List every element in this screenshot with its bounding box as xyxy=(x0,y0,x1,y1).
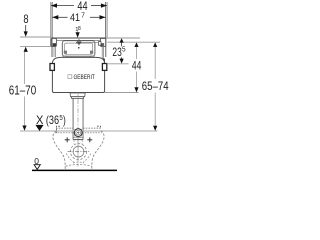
wall extension line right outer xyxy=(106,2,108,38)
flush pipe body white over band xyxy=(74,99,83,139)
fixation cross left xyxy=(65,137,70,142)
pipe center line xyxy=(77,94,79,161)
outlet dashed circle xyxy=(71,144,87,160)
extension line B tab bottom xyxy=(20,45,51,47)
label 1.8 above cistern xyxy=(75,26,81,33)
geberit logo square xyxy=(68,75,72,79)
svg-text:GEBERIT: GEBERIT xyxy=(74,74,96,81)
fixation cross right xyxy=(87,137,92,142)
dimension 44 top xyxy=(51,0,107,13)
dimension 8 down arrow xyxy=(25,25,27,32)
rim band left end xyxy=(56,126,60,133)
dimension 23.5 xyxy=(107,38,129,64)
svg-text:8: 8 xyxy=(23,13,28,26)
outlet solid circle xyxy=(73,146,84,157)
internal hose xyxy=(102,43,103,59)
svg-text:23: 23 xyxy=(112,45,122,59)
pan left side dashed xyxy=(53,131,65,170)
pipe center line over xyxy=(77,99,79,167)
opening corner detail right xyxy=(90,51,93,54)
pan foot arc xyxy=(65,165,91,167)
dimension 65-74 xyxy=(142,42,169,130)
opening corner detail left xyxy=(64,51,67,54)
left fitting lines xyxy=(54,47,56,57)
cistern upper side left xyxy=(51,38,53,57)
svg-text:65–74: 65–74 xyxy=(142,79,169,93)
flush pipe collar xyxy=(70,93,85,98)
arrow to cistern top xyxy=(76,32,80,38)
wall extension line right inner xyxy=(105,2,107,38)
svg-text:61–70: 61–70 xyxy=(9,84,36,98)
supply end fitting xyxy=(98,42,101,46)
WC pan rim band top xyxy=(56,127,101,129)
bracket right dark xyxy=(101,59,105,67)
mounting tab right xyxy=(100,38,105,46)
flush socket circle xyxy=(74,129,82,137)
opening frame foot right xyxy=(91,56,94,58)
flange inner line xyxy=(74,136,83,138)
svg-text:5: 5 xyxy=(122,46,126,53)
cistern upper side right xyxy=(105,38,107,57)
dimension 41.7 xyxy=(52,12,105,24)
zero level open triangle xyxy=(34,165,40,170)
rim band right end xyxy=(97,126,101,128)
service opening inner frame xyxy=(65,43,93,54)
service opening outer frame xyxy=(62,41,95,57)
pan right side dashed xyxy=(92,131,104,170)
svg-text:(36: (36 xyxy=(46,114,59,127)
cistern top line xyxy=(52,37,106,39)
opening frame foot left xyxy=(63,56,66,58)
lug right xyxy=(102,64,106,71)
svg-text:41: 41 xyxy=(70,12,80,24)
trap bottom dashes xyxy=(73,161,84,164)
filling valve crosshair xyxy=(76,39,82,48)
dimension 8 left label xyxy=(23,13,28,52)
flush pipe xyxy=(73,98,83,139)
svg-text:44: 44 xyxy=(77,0,87,13)
socket stub below flange xyxy=(74,140,82,144)
lug left xyxy=(50,64,54,71)
floor line xyxy=(32,169,117,171)
svg-text:): ) xyxy=(63,114,66,127)
WC pan rim band bottom xyxy=(55,132,102,134)
level marker triangle xyxy=(35,125,43,131)
dimension 44 right xyxy=(132,42,142,92)
cistern body outline xyxy=(52,57,104,92)
svg-text:7: 7 xyxy=(81,13,85,20)
water supply line xyxy=(81,41,98,43)
dimension 8 up arrow xyxy=(24,47,28,52)
wall extension line left outer xyxy=(51,2,108,46)
extension line L2 right xyxy=(107,41,160,43)
trap corner arc left xyxy=(66,154,74,163)
trap corner arc right xyxy=(83,154,91,163)
extension line L1 right xyxy=(106,37,140,39)
outlet crosshair horizontal xyxy=(68,151,90,153)
wall extension line left inner xyxy=(51,2,53,38)
cistern lid seam line xyxy=(52,39,106,41)
extension line cistern bottom right xyxy=(105,92,139,94)
dimension X line xyxy=(20,130,158,132)
label X 36.5 xyxy=(36,114,66,127)
svg-text:44: 44 xyxy=(132,59,142,73)
extension line 23.5 bottom xyxy=(107,63,129,65)
dimension 61-70 line xyxy=(9,52,36,131)
svg-text:8: 8 xyxy=(78,26,81,32)
mounting tab left xyxy=(51,38,56,46)
flange bottom xyxy=(73,139,83,141)
extension line A top of cistern left xyxy=(20,36,52,38)
